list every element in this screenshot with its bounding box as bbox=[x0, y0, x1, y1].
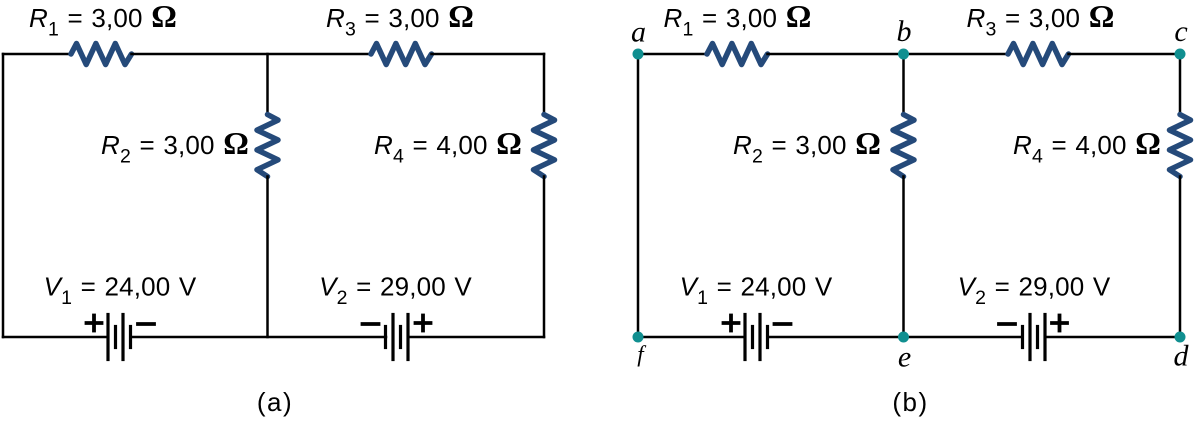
resistor R3 (a) bbox=[371, 44, 432, 65]
wire: (b) left border bbox=[637, 54, 640, 337]
plus sign V1 (a) bbox=[87, 316, 102, 331]
resistor R3 (b) bbox=[1008, 44, 1069, 65]
svg-text:V2 = 29,00 V: V2 = 29,00 V bbox=[958, 272, 1111, 310]
wire: (a) bottom-right segment bbox=[408, 336, 544, 339]
wire: (b) middle branch upper segment bbox=[902, 54, 905, 115]
svg-text:V1 = 24,00 V: V1 = 24,00 V bbox=[680, 272, 833, 310]
minus sign V2 (a) bbox=[363, 323, 379, 325]
svg-text:b: b bbox=[897, 15, 912, 48]
svg-text:R4 = 4,00 Ω: R4 = 4,00 Ω bbox=[1013, 125, 1161, 168]
node e bbox=[898, 332, 909, 343]
battery V1 (b) bbox=[745, 315, 768, 360]
wire: (a) right border lower segment bbox=[543, 177, 546, 338]
resistor R2 (b) bbox=[893, 115, 914, 177]
svg-text:f: f bbox=[637, 342, 647, 367]
wire: (a) right border upper segment bbox=[543, 54, 546, 115]
plus sign V2 (a) bbox=[416, 316, 431, 331]
minus sign V1 (a) bbox=[138, 323, 154, 325]
svg-text:V2 = 29,00 V: V2 = 29,00 V bbox=[319, 272, 472, 310]
wire: (b) top-right segment R3-c bbox=[1069, 53, 1181, 56]
battery V2 (b), mirrored bbox=[1023, 315, 1046, 360]
node b bbox=[898, 49, 909, 60]
node a bbox=[633, 49, 644, 60]
wire: (b) right border lower segment bbox=[1179, 177, 1182, 338]
svg-text:R3 = 3,00 Ω: R3 = 3,00 Ω bbox=[967, 0, 1115, 41]
wire: (b) top middle segment R1-b-R3 bbox=[768, 53, 1009, 56]
svg-text:d: d bbox=[1174, 340, 1190, 373]
plus sign V2 (b) bbox=[1052, 316, 1067, 331]
resistor R1 (b) bbox=[707, 44, 768, 65]
node f bbox=[633, 332, 644, 343]
svg-text:R2 = 3,00 Ω: R2 = 3,00 Ω bbox=[733, 125, 881, 168]
battery V1 (a) bbox=[108, 315, 131, 360]
svg-text:R4 = 4,00 Ω: R4 = 4,00 Ω bbox=[374, 125, 522, 168]
wire: (a) middle branch lower segment bbox=[266, 177, 269, 338]
wire: (a) left border f-a side bbox=[2, 54, 5, 337]
minus sign V1 (b) bbox=[775, 323, 791, 325]
wire: (a) bottom-left segment bbox=[3, 336, 108, 339]
svg-text:e: e bbox=[898, 341, 911, 374]
wire: (b) bottom-right segment V2-d bbox=[1045, 336, 1180, 339]
wire: (b) bottom middle segment V1-e-V2 bbox=[768, 336, 1023, 339]
svg-text:R1 = 3,00 Ω: R1 = 3,00 Ω bbox=[29, 0, 177, 41]
resistor R2 (a) bbox=[257, 115, 278, 177]
plus sign V1 (b) bbox=[724, 316, 739, 331]
battery V2 (a), mirrored bbox=[386, 315, 409, 360]
svg-text:(b): (b) bbox=[892, 387, 928, 417]
resistor R4 (a) bbox=[534, 115, 555, 177]
wire: (a) top middle segment bbox=[132, 53, 372, 56]
node d bbox=[1175, 332, 1186, 343]
svg-text:(a): (a) bbox=[257, 387, 293, 417]
resistor R4 (b) bbox=[1170, 115, 1191, 177]
wire: (a) bottom middle segment bbox=[131, 336, 387, 339]
svg-text:c: c bbox=[1174, 15, 1187, 48]
wire: (b) top-left segment a-R1 bbox=[638, 53, 707, 56]
wire: (a) top-left segment bbox=[3, 53, 71, 56]
wire: (a) top-right segment bbox=[432, 53, 545, 56]
node c bbox=[1175, 49, 1186, 60]
wire: (b) bottom-left segment f-V1 bbox=[638, 336, 745, 339]
minus sign V2 (b) bbox=[999, 323, 1015, 325]
svg-text:V1 = 24,00 V: V1 = 24,00 V bbox=[44, 272, 197, 310]
resistor R1 (a) bbox=[71, 44, 132, 65]
svg-text:R3 = 3,00 Ω: R3 = 3,00 Ω bbox=[326, 0, 474, 41]
svg-text:a: a bbox=[631, 16, 646, 49]
wire: (b) middle branch lower segment bbox=[902, 177, 905, 338]
wire: (b) right border upper segment bbox=[1179, 54, 1182, 115]
svg-text:R1 = 3,00 Ω: R1 = 3,00 Ω bbox=[664, 0, 812, 41]
svg-text:R2 = 3,00 Ω: R2 = 3,00 Ω bbox=[101, 125, 249, 168]
wire: (a) middle branch upper segment bbox=[266, 54, 269, 115]
